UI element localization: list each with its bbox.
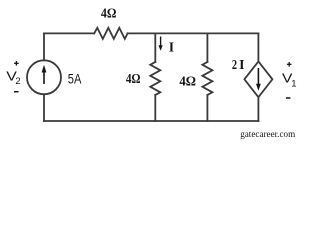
svg-text:gatecareer.com: gatecareer.com	[240, 129, 295, 140]
plus sign V1	[287, 62, 292, 67]
current annotation arrow I (down)	[159, 37, 163, 51]
wire left branch lower	[43, 94, 45, 121]
wire top-left segment	[44, 32, 94, 34]
svg-text:4Ω: 4Ω	[101, 6, 117, 21]
minus sign V1	[286, 97, 291, 99]
resistor R1 4ohm (top horizontal)	[94, 28, 127, 39]
wire top-right segment	[128, 32, 259, 34]
dependent source U1 2I (diamond)	[244, 61, 272, 97]
svg-text:2: 2	[15, 76, 20, 87]
plus sign V2	[14, 61, 19, 66]
current source I1 5A (circle)	[27, 60, 61, 94]
svg-text:I: I	[239, 57, 244, 72]
wire left branch upper	[43, 33, 45, 60]
resistor R2 4ohm (vertical left)	[150, 62, 160, 95]
svg-text:4Ω: 4Ω	[126, 72, 141, 87]
svg-text:4Ω: 4Ω	[179, 75, 196, 90]
arrow inside dependent source (down)	[256, 68, 261, 91]
wire right branch lower	[257, 97, 259, 121]
svg-text:5A: 5A	[68, 72, 82, 87]
resistor R3 4ohm (vertical right)	[202, 62, 212, 95]
wire branch A lower	[154, 95, 156, 121]
svg-text:I: I	[169, 39, 174, 54]
svg-text:2: 2	[232, 57, 237, 72]
wire branch A upper	[154, 33, 156, 62]
wire bottom	[44, 120, 258, 122]
minus sign V2	[14, 91, 19, 93]
wire right branch upper	[257, 33, 259, 61]
wire branch B lower	[206, 95, 208, 121]
wire branch B upper	[206, 33, 208, 62]
arrow inside current source I1 (up)	[42, 65, 47, 84]
svg-text:1: 1	[291, 78, 296, 89]
